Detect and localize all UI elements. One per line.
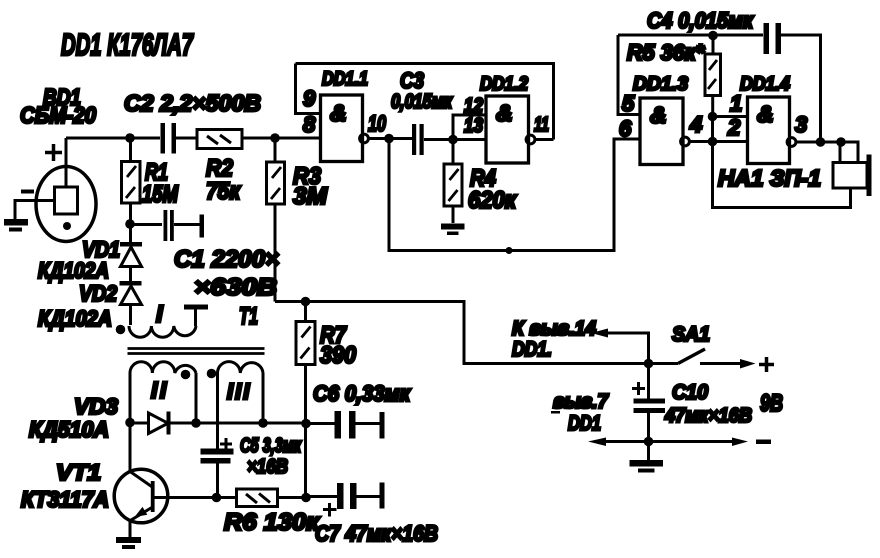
capacitor C3 [412,124,424,155]
capacitor C5 [201,449,234,498]
svg-text:КД102А: КД102А [38,306,112,331]
wire: VD1 to VD2 [129,267,132,282]
svg-text:DD1.2: DD1.2 [480,73,528,95]
svg-text:КТ3117А: КТ3117А [21,487,109,512]
svg-text:VD3: VD3 [74,394,118,419]
wire: HV node horizontal (BD1 to C2) [66,137,160,140]
phase dot winding I [116,325,126,335]
wire: R2 to pin 8 of DD1.1 [242,137,321,140]
wire: stub to pin 14 with arrow [591,329,649,364]
svg-text:VT1: VT1 [56,460,101,485]
capacitor C1 [134,210,204,241]
underline dash below vyv.7 [551,411,560,414]
ground at R4 [441,224,465,236]
node junction winding II right on rail [191,418,201,428]
wire: feedback bottom rail to DD1.3 pin6 [389,139,640,251]
svg-text:15М: 15М [142,181,179,208]
svg-text:3: 3 [795,112,807,137]
svg-text:&: & [496,100,513,126]
svg-text:DD1 К176ЛА7: DD1 К176ЛА7 [61,27,194,62]
gate DD1.3 [640,98,689,165]
svg-text:II: II [151,377,169,403]
svg-text:КД102А: КД102А [38,258,109,283]
svg-text:9В: 9В [760,390,783,417]
node junction C5 bottom / base rail [212,493,222,503]
wire: R1 bottom to VD1 [129,203,132,242]
svg-text:SA1: SA1 [672,323,710,346]
node junction VD3 anode / winding II left / VT1 collector [125,418,135,428]
svg-text:6: 6 [619,116,632,141]
wire: pins 1 and 2 of DD1.4 [713,117,748,142]
ground at BD1 [4,219,28,232]
resistor R6 [237,489,278,507]
node junction pin4/pin2/HA1 [708,137,718,147]
pin 9 wire and label [296,64,321,114]
transformer T1 winding III [218,362,264,449]
svg-text:DD1.1: DD1.1 [322,68,368,90]
resistor R5 [705,36,721,117]
svg-text:НА1 ЗП-1: НА1 ЗП-1 [718,165,821,191]
resistor R3 [267,138,285,302]
svg-text:&: & [650,102,667,128]
svg-text:DD1.4: DD1.4 [740,73,790,95]
svg-text:R5 36к*: R5 36к* [627,40,705,65]
svg-text:13: 13 [464,115,483,137]
svg-text:8: 8 [303,112,316,137]
transistor VT1 [114,423,168,538]
svg-text:КД510А: КД510А [29,417,109,442]
wire: BD1 cathode to ground [15,201,55,220]
node junction R1/C1/VD1 [125,219,135,229]
capacitor C10 [634,364,666,442]
capacitor C4 [764,23,782,54]
phase dot winding II [181,370,191,380]
diode VD1 [120,242,142,267]
svg-text:С7 47мк×16В: С7 47мк×16В [315,521,438,546]
wire: DD1.2 output to feedback rail [535,138,554,141]
node A junction BD1/R1/C2 [125,133,135,143]
svg-text:47мк×16В: 47мк×16В [664,405,752,427]
node junction R7 top [301,297,311,307]
wire: feedback top rail DD1.1/DD1.2 [296,64,554,140]
ground at C10 [630,442,664,473]
node junction pin10 [384,134,394,144]
wire: rectifier rail y=423 [130,422,306,425]
svg-text:выв.7: выв.7 [553,391,609,413]
wire: C3 to DD1.2 pins 12/13 [424,115,486,140]
svg-text:&: & [330,100,347,126]
svg-text:С5 3,3мк: С5 3,3мк [240,435,302,457]
svg-text:С3: С3 [400,68,424,93]
capacitor C6 [306,411,385,439]
minus terminal battery [756,440,771,445]
wire: R1 top lead [129,138,132,162]
resistor R2 [197,130,242,149]
svg-text:&: & [757,101,774,127]
resistor R1 [122,162,141,204]
wire: DD1.1 output to C3 [369,137,413,140]
svg-text:С4 0,015мк: С4 0,015мк [647,8,755,33]
node junction rail/R7/C6 [301,419,311,429]
node junction C3/R4/pin13 [448,135,458,145]
wire: minus rail with arrows [588,438,748,447]
node junction R5 bottom / pin1 [708,112,718,122]
transformer core [128,349,265,354]
svg-text:5: 5 [622,91,635,116]
gate DD1.2 [486,96,535,163]
svg-text:0,015мк: 0,015мк [391,91,453,113]
svg-text:10: 10 [368,111,387,136]
wire: C4 top rail [618,35,821,142]
svg-text:DD1.: DD1. [512,338,552,361]
svg-text:9: 9 [303,86,316,111]
svg-text:11: 11 [534,114,549,136]
node junction C10 bottom [644,437,654,447]
plus sign of C10 [632,382,645,395]
wire: VD2 to winding I [129,305,132,326]
svg-text:С6 0,33мк: С6 0,33мк [313,381,412,406]
node junction winding III right on rail [258,418,268,428]
wire: DD1.4 output to piezo [796,141,849,144]
wire: DD1.3 output to node [690,140,713,143]
gate DD1.1 [321,95,369,162]
node junction piezo top [836,137,846,147]
switch SA1 [678,349,756,369]
svg-text:СБМ-20: СБМ-20 [20,102,96,128]
gate DD1.4 [748,97,796,164]
geiger tube BD1 [36,167,96,242]
ground at VT1 emitter [116,537,141,549]
svg-text:С1 2200×: С1 2200× [174,246,279,273]
node junction R5 top [708,31,718,41]
svg-text:4: 4 [689,112,702,137]
wire: base rail y=497.5 [155,496,307,499]
svg-text:С2 2,2×500В: С2 2,2×500В [124,90,261,116]
wire: supply wire y=301.5 to switch [275,302,678,364]
svg-text:3М: 3М [293,183,328,210]
svg-text:2: 2 [727,115,741,140]
svg-text:К выв.14: К выв.14 [512,318,596,340]
node junction R6/R7/C7 [301,493,311,503]
diode VD3 [149,412,171,435]
svg-text:III: III [227,379,251,404]
plus terminal battery [759,357,774,372]
svg-text:DD1: DD1 [568,412,601,435]
resistor R7 [296,302,315,498]
transformer T1 winding II [130,362,196,422]
wire: C2 to R2 [176,137,197,140]
node junction SA1/C10 [644,359,654,369]
svg-text:Т1: Т1 [239,303,258,330]
svg-text:DD1.3: DD1.3 [633,73,688,95]
svg-text:×16В: ×16В [247,456,288,478]
blob on bottom rail [506,247,513,254]
diode VD2 [120,281,142,305]
plus sign of C5 [220,438,232,450]
svg-text:×630В: ×630В [194,274,277,301]
plus terminal of BD1 [45,144,62,161]
phase dot winding III [207,369,217,379]
capacitor C7 [306,483,385,510]
svg-text:620к: 620к [468,187,518,214]
node junction R2/R3/pin8 [270,133,280,143]
capacitor C2 [161,123,177,154]
svg-text:С10: С10 [672,381,708,404]
svg-text:390: 390 [320,342,357,369]
resistor R4 [444,140,462,224]
svg-text:1: 1 [730,91,742,116]
svg-text:75к: 75к [206,178,242,205]
transformer T1 winding I [129,305,208,338]
piezo sounder HA1 [713,142,872,208]
wire: BD1 anode up to HV node [65,138,68,187]
svg-text:12: 12 [464,95,483,117]
minus terminal of BD1 [21,190,34,194]
plus sign of C7 [323,503,337,517]
pin 5 wire and label [618,35,640,115]
svg-text:R6 130к: R6 130к [224,509,321,536]
node junction C4 right branch [816,137,826,147]
svg-text:VD2: VD2 [79,281,118,306]
